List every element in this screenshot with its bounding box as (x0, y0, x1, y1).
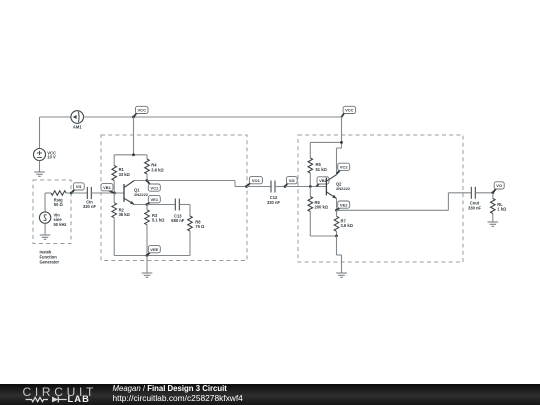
wire stage 2 bottom rail (310, 235, 336, 238)
junction top rail stage 2 (340, 141, 343, 144)
resistor R2 36 kOhm (112, 193, 131, 256)
footer bar (0, 384, 540, 405)
wire VCC drop stage 2 (341, 117, 343, 148)
ammeter AM1 (40, 111, 84, 130)
resistor R1 33 kOhm (112, 155, 131, 193)
resistor R3 5.1 kOhm (145, 205, 165, 256)
footer url (113, 393, 243, 403)
svg-text:200 kΩ: 200 kΩ (315, 205, 329, 210)
dashed box amplifier stage 2 (298, 135, 463, 262)
node VB2 (317, 177, 330, 187)
voltage source Vin sine 50 kHz (39, 193, 66, 235)
wire Cin to VB1 node (91, 192, 114, 194)
wire VE2 to Cout (337, 193, 472, 211)
node VI1 (70, 183, 84, 195)
ground stage 1 (142, 273, 153, 277)
footer title Meagan / Final Design 3 Circuit (113, 384, 227, 393)
wire to ground stage 2 (337, 236, 342, 273)
CircuitLab logo squiggle (0, 0, 110, 405)
wire C12 to VI2 (275, 186, 285, 188)
node VO1 (245, 177, 262, 188)
svg-text:VO: VO (496, 183, 502, 188)
ground stage 2 (336, 273, 347, 277)
svg-text:2N2222: 2N2222 (134, 192, 149, 197)
transistor Q1 2N2222 (114, 181, 149, 205)
svg-text:VC1: VC1 (150, 185, 159, 190)
node VCC (stage 1 tap) (132, 106, 148, 118)
wire VE1 to C13 (147, 204, 175, 206)
dashed box amplifier stage 1 (101, 135, 247, 261)
capacitor C13 680 nF (171, 199, 184, 224)
resistor R8 75 Ohm (188, 205, 205, 256)
svg-text:5.1 kΩ: 5.1 kΩ (152, 218, 165, 223)
resistor R4 3.6 kOhm (145, 155, 165, 181)
svg-text:VO1: VO1 (252, 178, 261, 183)
node VE1 (146, 196, 161, 206)
svg-text:330 nF: 330 nF (267, 200, 280, 205)
resistor RL 1 kOhm (490, 193, 506, 222)
svg-text:1 kΩ: 1 kΩ (497, 207, 507, 212)
svg-text:3.6 kΩ: 3.6 kΩ (341, 223, 354, 228)
capacitor Cin 330 nF (83, 187, 96, 209)
wire VC1 to VO1 (147, 181, 247, 187)
wire stage 2 top rail (310, 141, 341, 143)
wire VCC rail top (84, 116, 342, 118)
svg-text:3.6 kΩ: 3.6 kΩ (151, 167, 164, 172)
svg-text:51 kΩ: 51 kΩ (316, 167, 328, 172)
wire C13 to R8 (179, 204, 190, 206)
svg-text:VI2: VI2 (289, 178, 296, 183)
ground for VCC source (34, 172, 45, 176)
svg-text:VE1: VE1 (151, 197, 159, 202)
wire VEE to ground (146, 256, 148, 274)
wire VI1 to Cin (71, 192, 87, 194)
svg-text:330 nF: 330 nF (468, 205, 481, 210)
node VB1 (101, 184, 116, 195)
ground for Vin (40, 235, 51, 239)
node VC2 (337, 163, 350, 174)
svg-text:VEE: VEE (150, 247, 158, 252)
capacitor C12 330 nF (267, 181, 280, 205)
svg-text:680 nF: 680 nF (171, 218, 184, 223)
svg-text:36 kΩ: 36 kΩ (119, 212, 131, 217)
svg-text:75 Ω: 75 Ω (195, 224, 205, 229)
node VE2 (335, 201, 350, 212)
CircuitLab logo text CIRCUIT (23, 385, 101, 399)
voltage source V1 VCC 10 V (34, 117, 56, 172)
wire VCC drop stage 1 (133, 117, 135, 155)
junction top rail stage 1 (132, 153, 135, 156)
resistor Rsig 50 Ohm (45, 191, 71, 208)
wire VI2 to VB2 (285, 186, 326, 188)
junction R7 bottom (335, 235, 338, 238)
wire Q2 collector to VCC (337, 148, 342, 175)
svg-text:VC2: VC2 (340, 165, 349, 170)
transistor Q2 2N2222 (326, 175, 350, 211)
wire stage 1 bottom rail (114, 255, 190, 257)
node VI2 (284, 177, 297, 188)
CircuitLab logo text LAB (68, 394, 90, 404)
wire VO1 to C12 (247, 186, 272, 188)
svg-text:33 kΩ: 33 kΩ (119, 172, 131, 177)
node VO (491, 182, 504, 194)
wire Cout to VO (475, 192, 493, 194)
dashed box Instek Function Generator (33, 180, 71, 244)
wire stage 1 top rail (114, 154, 147, 156)
resistor R5 51 kOhm (308, 142, 327, 186)
resistor R6 200 kOhm (308, 187, 329, 237)
ground RL (488, 222, 499, 226)
svg-text:VCC: VCC (345, 108, 354, 113)
node VC1 (146, 179, 161, 191)
svg-text:2N2222: 2N2222 (336, 186, 351, 191)
svg-text:VE2: VE2 (340, 202, 348, 207)
capacitor Cout 330 nF (468, 187, 481, 211)
resistor R7 3.6 kOhm (334, 210, 353, 236)
caption Instek Function Generator (40, 250, 60, 265)
svg-text:VCC: VCC (138, 108, 147, 113)
junction R5 R6 base (309, 185, 312, 188)
node VCC (stage 2 tap) (342, 106, 356, 117)
node VEE (146, 246, 161, 257)
